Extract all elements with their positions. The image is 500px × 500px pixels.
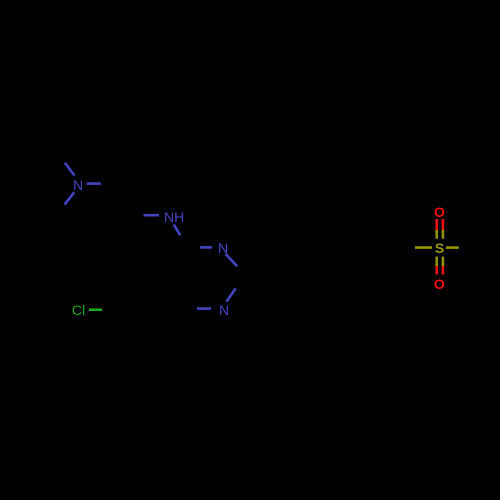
svg-text:N: N	[219, 302, 229, 318]
svg-text:S: S	[435, 240, 444, 256]
svg-text:N: N	[218, 240, 228, 256]
svg-text:Cl: Cl	[72, 302, 85, 318]
svg-text:O: O	[434, 276, 445, 292]
svg-text:NH: NH	[164, 209, 184, 225]
svg-text:O: O	[434, 204, 445, 220]
svg-text:N: N	[73, 177, 83, 193]
